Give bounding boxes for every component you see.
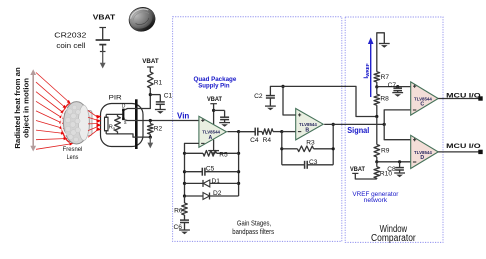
radiated heat rays xyxy=(36,73,71,104)
svg-text:R4: R4 xyxy=(263,137,272,144)
resistor R7 xyxy=(374,72,380,82)
node: vref mid xyxy=(375,115,378,118)
wire: U1C output xyxy=(438,98,480,100)
node: R2 top xyxy=(149,119,152,122)
resistor R4 xyxy=(262,129,273,135)
wire: VBAT to U1A xyxy=(210,103,217,105)
U1B + input xyxy=(298,114,301,116)
svg-text:Supply Pin: Supply Pin xyxy=(198,82,229,89)
node: R5 right xyxy=(237,152,240,155)
capacitor C2 xyxy=(270,86,283,95)
pyro element xyxy=(105,114,107,117)
ground (C6) xyxy=(179,229,190,231)
wire: VBAT to R1 xyxy=(147,66,154,68)
svg-text:VBAT: VBAT xyxy=(350,166,366,173)
node: B- node xyxy=(280,130,283,133)
PIR sensor can xyxy=(101,104,144,147)
svg-text:R3: R3 xyxy=(306,140,315,147)
svg-text:R9: R9 xyxy=(381,148,390,155)
node: C5 left xyxy=(183,170,186,173)
node: D1 right xyxy=(237,182,240,185)
PIR sensor face (thick line) xyxy=(135,99,138,149)
svg-text:R6: R6 xyxy=(174,207,183,214)
ground (C8) xyxy=(394,172,405,174)
wire: to bypass cap xyxy=(214,109,225,111)
svg-text:C3: C3 xyxy=(309,159,318,166)
svg-text:VBAT: VBAT xyxy=(142,58,159,65)
U1C - input xyxy=(413,109,416,111)
wire: node to C1 xyxy=(150,94,160,96)
node: R2 bottom xyxy=(149,136,152,139)
svg-text:R1: R1 xyxy=(154,79,163,86)
wire: cap to gnd xyxy=(224,120,226,123)
capacitor C8 xyxy=(399,162,401,168)
node: B output junction xyxy=(332,123,335,126)
coin cell photo xyxy=(125,3,159,35)
U1D - input xyxy=(413,161,416,163)
svg-text:Vin: Vin xyxy=(177,112,189,121)
wire: U1A gnd pin xyxy=(213,140,215,151)
label: radiated heat text xyxy=(13,67,22,149)
svg-text:MCU I/O: MCU I/O xyxy=(446,92,480,99)
terminal (bottom) xyxy=(478,150,482,154)
resistor Rg (parallel) xyxy=(115,117,121,132)
wire: C1 to gnd xyxy=(159,104,161,109)
svg-text:PIR: PIR xyxy=(109,94,122,101)
svg-text:TLV8544: TLV8544 xyxy=(414,150,432,155)
capacitor C1 xyxy=(156,101,165,103)
svg-text:C1: C1 xyxy=(164,93,173,100)
motion double arrow xyxy=(32,73,34,148)
svg-text:D: D xyxy=(122,104,126,110)
node: D2/R6 junction xyxy=(183,194,186,197)
svg-text:Signal: Signal xyxy=(347,126,369,135)
U1A - input xyxy=(201,142,204,144)
capacitor C6 xyxy=(180,219,189,221)
ground (C1) xyxy=(155,109,166,111)
svg-text:Lens: Lens xyxy=(67,154,79,161)
JFET Q1 xyxy=(122,110,124,119)
ground (C2) xyxy=(265,105,276,107)
node: bias xyxy=(281,85,284,88)
capacitor C3 xyxy=(282,164,305,166)
capacitor C4 xyxy=(239,131,256,133)
svg-text:B: B xyxy=(305,127,309,133)
svg-text:R8: R8 xyxy=(380,95,389,102)
svg-text:Gain Stages,: Gain Stages, xyxy=(237,218,271,227)
wire: B fb right bus xyxy=(332,124,334,164)
node: C7 tap xyxy=(396,85,399,88)
ground (top) xyxy=(379,43,390,45)
op-amp U1D TLV8544 xyxy=(411,135,439,168)
battery BT1 CR2032 xyxy=(99,27,106,29)
op-amp U1A TLV8544 xyxy=(199,116,227,147)
IWREF current arrow xyxy=(368,37,374,97)
svg-text:MCU I/O: MCU I/O xyxy=(446,143,480,150)
svg-text:D1: D1 xyxy=(212,178,221,185)
U1A + input xyxy=(201,119,204,121)
ground (U1A) xyxy=(208,150,219,152)
wire: U1A output xyxy=(227,131,255,133)
svg-text:D2: D2 xyxy=(213,190,222,197)
wire: Signal xyxy=(324,123,384,125)
terminal (top) xyxy=(478,96,482,100)
svg-text:A: A xyxy=(209,135,213,141)
wire: signal to U1C- xyxy=(384,110,411,125)
wire: C6 to gnd xyxy=(184,223,186,230)
svg-text:network: network xyxy=(364,197,388,204)
wire: VBAT tail to R10 xyxy=(352,172,358,174)
resistor R2 xyxy=(149,121,151,124)
svg-text:TLV8544: TLV8544 xyxy=(299,122,317,127)
wire: vref bus crossing xyxy=(376,117,378,145)
node: D1 left xyxy=(183,182,186,185)
wire: vref low to U1D- xyxy=(377,161,411,163)
svg-text:C2: C2 xyxy=(254,93,263,100)
capacitor C7 xyxy=(397,87,399,88)
capacitor C5 xyxy=(185,171,203,173)
svg-text:TLV8544: TLV8544 xyxy=(414,96,432,101)
wire: R7 to gnd xyxy=(377,33,385,72)
wire: drain to R1 node xyxy=(125,95,151,110)
label: IWREF xyxy=(363,63,370,79)
op-amp U1B TLV8544 xyxy=(296,109,324,140)
wire: Vin xyxy=(138,120,199,122)
svg-text:C: C xyxy=(420,102,424,108)
wire: to U1B - xyxy=(282,131,296,133)
red arc on lens xyxy=(61,103,69,142)
wire: A feedback right bus xyxy=(238,132,240,196)
op-amp U1C TLV8544 xyxy=(411,82,439,115)
node: vref low xyxy=(375,160,378,163)
PIR internal wires xyxy=(106,113,122,115)
resistor R6 xyxy=(184,196,186,203)
ray arrowheads at PIR xyxy=(96,114,101,119)
node: signal branch xyxy=(383,123,386,126)
svg-text:Comparator: Comparator xyxy=(371,233,416,244)
wire: bias to vref mid xyxy=(283,86,377,116)
U1D + input xyxy=(413,139,416,141)
svg-text:R5: R5 xyxy=(219,152,228,159)
wire: C8 gnd xyxy=(399,170,401,173)
resistor R9 xyxy=(374,145,380,157)
wire: B fb left bus xyxy=(281,132,283,165)
wire: R1 to node xyxy=(149,88,151,95)
ground (C7) xyxy=(392,92,403,94)
U1C + input xyxy=(413,85,416,87)
ground (battery, arrow) xyxy=(102,52,104,64)
diode D2 xyxy=(185,195,204,197)
node: A out xyxy=(237,130,240,133)
svg-text:TLV8544: TLV8544 xyxy=(202,130,220,135)
resistor R8 xyxy=(376,87,378,94)
node: C8 tap xyxy=(398,160,401,163)
svg-text:C5: C5 xyxy=(206,165,215,172)
node: R3 right xyxy=(332,147,335,150)
node: R5 left xyxy=(183,152,186,155)
ground (bypass) xyxy=(219,122,230,124)
svg-text:VBAT: VBAT xyxy=(207,96,223,103)
wire: U1D output xyxy=(438,151,480,153)
dashed box: gain stages xyxy=(173,17,342,242)
resistor R3 xyxy=(282,148,298,150)
resistor R5 xyxy=(185,152,204,154)
svg-text:C7: C7 xyxy=(388,82,397,89)
U1B - input xyxy=(298,131,301,133)
node: C5 right xyxy=(237,170,240,173)
wire: source to Vin xyxy=(125,119,138,122)
fresnel lens xyxy=(61,102,92,144)
diode D1 xyxy=(185,182,204,184)
wire: A feedback left bus xyxy=(185,143,199,196)
svg-text:Fresnel: Fresnel xyxy=(63,146,83,153)
svg-text:bandpass filters: bandpass filters xyxy=(232,227,274,236)
svg-text:C4: C4 xyxy=(250,137,259,144)
bypass capacitor xyxy=(220,116,229,118)
svg-text:CR2032: CR2032 xyxy=(54,31,86,40)
ground (R2, arrow) xyxy=(149,137,151,143)
node: R1/C1/drain xyxy=(149,93,152,96)
svg-text:R7: R7 xyxy=(381,74,390,81)
svg-text:D: D xyxy=(420,155,424,161)
node: supply branch xyxy=(212,109,215,112)
wire: vref high to U1C+ xyxy=(377,86,411,88)
node: fb B xyxy=(280,147,283,150)
focused rays xyxy=(88,111,98,118)
svg-text:object in motion: object in motion xyxy=(21,78,30,138)
dashed box: window comparator xyxy=(345,17,443,242)
resistor R1 xyxy=(148,72,154,88)
svg-text:R2: R2 xyxy=(154,125,163,132)
svg-text:R10: R10 xyxy=(380,171,392,178)
wire: bias to U1B+ xyxy=(283,86,296,115)
node: vref high xyxy=(375,85,378,88)
svg-text:coin cell: coin cell xyxy=(56,41,85,50)
resistor R10 xyxy=(376,162,378,167)
svg-text:VBAT: VBAT xyxy=(93,13,116,22)
wire: signal to U1D+ xyxy=(384,124,411,139)
wire: C2 gnd xyxy=(269,98,271,106)
